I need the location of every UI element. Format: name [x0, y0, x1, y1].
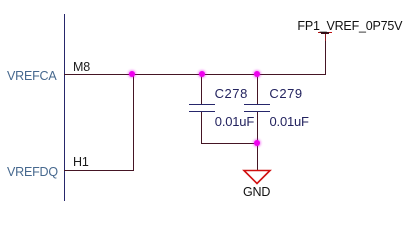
capacitor C279 top lead	[257, 74, 258, 104]
capacitor C279 value label	[270, 115, 309, 128]
wire: bottom run joining capacitor grounds	[201, 143, 257, 144]
pin number M8	[73, 61, 90, 74]
capacitor C278 bottom plate	[189, 111, 215, 112]
ground label GND	[243, 186, 270, 199]
junction at C278 top	[199, 71, 205, 77]
wire: vertical from power symbol to main net	[325, 41, 326, 74]
pin name VREFDQ	[7, 166, 58, 179]
junction at C279 top	[254, 71, 260, 77]
capacitor C278 top lead	[201, 74, 202, 104]
capacitor C279 bottom lead	[257, 112, 258, 144]
junction at H1 branch	[129, 71, 135, 77]
wire: main net from pin M8 to power vertical	[64, 74, 326, 75]
power symbol bar center tick	[321, 32, 329, 34]
pin name VREFCA	[7, 70, 57, 83]
wire: stem from bottom run to ground symbol	[257, 143, 258, 170]
ground symbol triangle	[240, 167, 274, 187]
pin number H1	[73, 156, 89, 169]
capacitor C278 bottom lead	[201, 112, 202, 144]
wire: upper reddish segment below power bar	[325, 34, 326, 42]
capacitor C279 top plate	[244, 104, 270, 105]
wire: pin H1 horizontal run	[64, 170, 134, 171]
capacitor C279 bottom plate	[244, 111, 270, 112]
wire: vertical branch from H1 run up to main net	[133, 74, 134, 170]
power symbol bar FP1_VREF_0P75V	[318, 32, 332, 34]
capacitor C278 value label	[215, 115, 254, 128]
net label FP1_VREF_0P75V	[297, 20, 402, 33]
capacitor C278 top plate	[189, 104, 215, 105]
junction at ground stem	[254, 140, 260, 146]
capacitor C278 refdes label	[215, 87, 248, 100]
capacitor C279 refdes label	[269, 87, 302, 100]
part edge (component body line)	[64, 14, 66, 201]
